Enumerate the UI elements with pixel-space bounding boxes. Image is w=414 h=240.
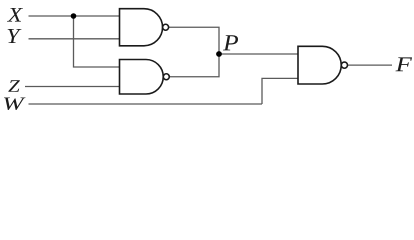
wire X input bbox=[29, 15, 120, 17]
node Y label bbox=[8, 29, 22, 43]
wire W input bbox=[29, 103, 263, 105]
wire U3 output to F bbox=[348, 64, 393, 66]
node W label bbox=[4, 98, 26, 111]
wire W riser to U3 bbox=[262, 78, 298, 104]
node P label bbox=[223, 35, 238, 50]
node X label bbox=[7, 8, 23, 22]
NAND gate U1 bubble bbox=[163, 24, 169, 30]
junction node P bbox=[216, 51, 222, 57]
wire Z input bbox=[25, 86, 120, 88]
NAND gate U1 body bbox=[120, 9, 163, 46]
wire node P to U3 bbox=[219, 53, 298, 55]
wire U1 output to node P bbox=[169, 27, 219, 54]
wire U2 output to node P bbox=[169, 54, 219, 77]
junction dot on X line bbox=[71, 13, 77, 19]
node F label bbox=[396, 57, 413, 71]
wire X branch down to U2 bbox=[74, 16, 120, 67]
NAND gate U2 body bbox=[120, 60, 164, 95]
wire Y input bbox=[29, 38, 120, 40]
NAND gate U2 bubble bbox=[163, 74, 169, 80]
NAND gate U3 bubble bbox=[341, 62, 347, 68]
NAND gate U3 body bbox=[298, 46, 341, 84]
node Z label bbox=[8, 80, 20, 92]
